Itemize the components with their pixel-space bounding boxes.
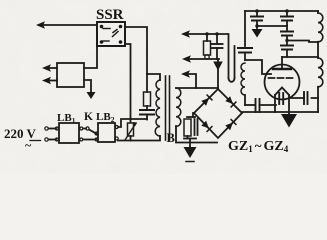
wire secondary bottom to bus xyxy=(176,126,217,143)
grid choke xyxy=(241,63,245,95)
wire SSR bottom-right to varistor branch xyxy=(125,44,131,122)
wire arrow heater tap xyxy=(186,74,196,88)
anode line xyxy=(282,56,318,58)
resistor across bridge left xyxy=(192,113,194,117)
resistor mid cluster xyxy=(206,34,208,41)
wire arrow output top-left xyxy=(40,24,97,26)
varistor RV xyxy=(128,123,134,136)
diode GZ2 xyxy=(225,96,233,104)
wire secondary top to bridge top xyxy=(176,87,218,89)
switch K xyxy=(84,128,86,130)
wire arrow input 1 xyxy=(46,67,57,69)
ground arrow top right xyxy=(252,29,263,38)
wire arrow input 2 xyxy=(46,80,57,82)
wire grid lead xyxy=(245,60,271,74)
capacitor chain C3 xyxy=(281,45,293,47)
wire mains to LB1 xyxy=(49,128,57,130)
tank coil lower xyxy=(318,58,323,87)
ground mid cluster xyxy=(213,62,223,71)
anode plate xyxy=(273,68,291,70)
grid dashes xyxy=(269,77,293,79)
ballast LB1 xyxy=(59,123,79,143)
ballast LB2 xyxy=(98,123,115,142)
diode GZ4 xyxy=(225,123,233,131)
filament capacitor xyxy=(278,93,280,104)
diode GZ3 xyxy=(201,121,209,129)
wire arrow line 1 xyxy=(186,33,227,35)
terminal circles mains xyxy=(45,127,48,130)
cathode filament xyxy=(275,88,289,96)
ground arrow main xyxy=(281,114,297,128)
control module box xyxy=(57,63,84,87)
top HT bus xyxy=(245,10,318,12)
anode lead xyxy=(281,57,283,69)
wire to divider xyxy=(257,25,287,27)
grid capacitor drop xyxy=(244,11,246,46)
transformer B secondary winding xyxy=(176,88,181,126)
wire LB1 to LB2 bottom xyxy=(84,139,96,141)
capacitor chain C2 xyxy=(281,31,293,33)
transformer B primary wire xyxy=(147,74,160,80)
ground arrow under bridge xyxy=(184,147,197,158)
wire SSR top-right to snubber branch xyxy=(125,27,147,74)
snubber capacitor xyxy=(140,109,154,111)
wire module to down-arrow xyxy=(84,80,91,92)
coupling hairpin loop xyxy=(228,34,230,78)
wire arrow line 2 xyxy=(187,58,219,60)
bypass capacitor with ground xyxy=(255,9,259,13)
cathode bus upper xyxy=(245,104,255,106)
diode GZ1 xyxy=(201,98,209,106)
transformer B primary winding xyxy=(155,80,160,136)
wire LB2 top to snubber line xyxy=(118,119,147,127)
capacitor chain C1 xyxy=(285,9,289,13)
transformer B core xyxy=(165,76,167,140)
filament leads xyxy=(274,95,276,112)
wire tank tap xyxy=(287,41,318,43)
cathode bus lower from bridge xyxy=(242,111,318,113)
wire module to SSR xyxy=(84,46,97,68)
snubber resistor xyxy=(146,74,148,92)
wire coil bottom to cathode xyxy=(312,87,319,98)
tank coil upper xyxy=(317,11,319,13)
capacitor across bridge left xyxy=(194,119,196,135)
capacitor mid cluster xyxy=(216,34,218,44)
ground arrow (down) xyxy=(87,92,96,99)
feedback capacitor xyxy=(307,92,309,104)
triode tube xyxy=(265,65,300,100)
bridge rectifier GZ1-GZ4 xyxy=(194,89,242,138)
wire LB2 bottom to transformer primary bottom xyxy=(118,136,160,141)
wire to bridge top xyxy=(217,59,219,88)
relay SSR xyxy=(97,22,125,46)
